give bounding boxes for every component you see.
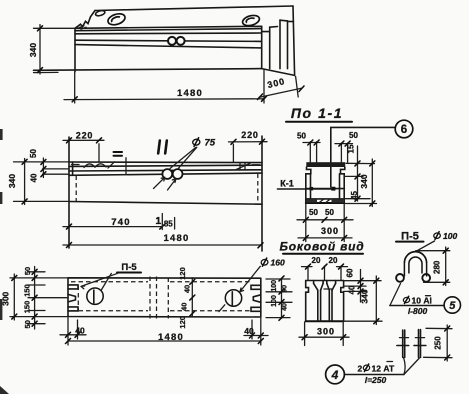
- svg-text:40: 40: [183, 285, 192, 293]
- svg-text:Боковой вид: Боковой вид: [280, 240, 365, 254]
- front face ledge line 4: [75, 45, 262, 48]
- left keys hidden dashed: [77, 286, 79, 312]
- lower cross ticks: [397, 345, 426, 347]
- right outer edge: [293, 6, 295, 75]
- svg-text:300: 300: [321, 226, 339, 236]
- circle 5: [444, 297, 460, 313]
- body bottom: [306, 202, 344, 204]
- front face bottom edge: [34, 69, 262, 71]
- svg-text:120: 120: [178, 316, 187, 329]
- bottom right dim 40: [244, 335, 268, 337]
- svg-text:40: 40: [180, 303, 189, 311]
- label diameter 75: [192, 138, 200, 147]
- svg-text:40: 40: [282, 303, 289, 311]
- svg-text:50: 50: [29, 149, 38, 158]
- svg-text:1480: 1480: [158, 332, 184, 343]
- bottom left dim 40: [68, 317, 78, 345]
- loop foot right: [422, 274, 430, 282]
- left total dim 300: [13, 274, 15, 320]
- loop foot left: [396, 274, 404, 282]
- outline: [68, 278, 261, 317]
- left side neck notch and body edge: [306, 167, 311, 203]
- bottom edge of right side face: [262, 69, 295, 76]
- svg-text:340: 340: [359, 174, 369, 188]
- svg-text:90: 90: [282, 285, 289, 293]
- upper cross ticks: [400, 337, 425, 339]
- svg-text:60: 60: [346, 268, 355, 277]
- dowel circles pair on ledge: [168, 37, 176, 45]
- beam left edge: [68, 137, 70, 248]
- svg-text:250: 250: [434, 336, 443, 350]
- right ext lines: [344, 280, 381, 282]
- dim 250: [424, 328, 453, 357]
- svg-text:40: 40: [244, 326, 254, 336]
- dim 1480 bottom: [63, 244, 262, 246]
- connector dots: [310, 187, 314, 191]
- ledge line 4 / body top: [69, 173, 262, 175]
- front elevation view: [7, 130, 335, 251]
- small horizontal in channel: [324, 288, 332, 290]
- arrows to holes: [154, 177, 165, 188]
- dim 280: [416, 251, 450, 283]
- svg-text:5: 5: [449, 300, 456, 312]
- lifting hole oval right: [241, 14, 260, 28]
- svg-text:40: 40: [75, 326, 85, 336]
- svg-text:50: 50: [349, 131, 358, 140]
- block outline with keyway notches: [306, 280, 344, 282]
- loop arch inner: [409, 257, 422, 263]
- label diameter 100: [433, 232, 441, 240]
- svg-text:40: 40: [30, 173, 39, 182]
- level mark =: [114, 152, 123, 156]
- vertical tick right of hatch: [125, 158, 127, 174]
- left bearing zone hatch: [72, 164, 80, 166]
- right bearing zone hatch: [236, 163, 250, 169]
- svg-text:l=250: l=250: [365, 375, 387, 385]
- loop legs: [404, 263, 426, 277]
- right side neck notch and body edge: [341, 167, 345, 203]
- svg-text:100: 100: [271, 295, 278, 307]
- right hole circle with mark 1: [225, 290, 241, 306]
- shelf line: [390, 305, 444, 307]
- svg-text:По 1-1: По 1-1: [291, 105, 343, 121]
- svg-text:340: 340: [7, 174, 17, 188]
- beam top edge: [69, 161, 262, 164]
- svg-text:П-5: П-5: [121, 262, 137, 273]
- svg-text:150: 150: [23, 301, 32, 314]
- svg-text:50: 50: [325, 208, 334, 217]
- svg-text:l-800: l-800: [408, 306, 428, 316]
- right end step verticals: [261, 26, 263, 68]
- loop arch outer: [404, 252, 426, 263]
- dim line 340 right: [371, 159, 373, 207]
- scan smudges on left edge: [0, 129, 3, 140]
- hidden dashed edges horizontal: [71, 281, 250, 283]
- dim 60 40: [360, 270, 362, 303]
- svg-text:20: 20: [312, 256, 321, 265]
- leader to shelf: [390, 284, 401, 306]
- detail pos 4 dowel bars: [326, 325, 452, 385]
- circle 6: [395, 120, 413, 138]
- left bar: [403, 330, 405, 357]
- svg-text:50: 50: [23, 320, 32, 328]
- left end hidden dashed line: [75, 176, 77, 202]
- svg-text:220: 220: [241, 130, 258, 140]
- bottom dim 50 50: [306, 203, 344, 242]
- dim 300 diagonal right of iso: [296, 77, 299, 98]
- svg-text:6: 6: [401, 124, 407, 136]
- svg-text:К-1: К-1: [280, 179, 294, 189]
- svg-text:160: 160: [271, 258, 285, 268]
- dim 220 top right: [232, 144, 234, 162]
- right dim chain 100 100: [266, 279, 292, 318]
- leader to label d160: [240, 266, 260, 291]
- svg-text:340: 340: [360, 289, 370, 303]
- svg-text:15: 15: [347, 144, 356, 153]
- shelf to circle 4: [345, 374, 404, 376]
- inner wall lines: [311, 174, 340, 199]
- svg-text:40: 40: [348, 285, 357, 294]
- left end inner vertical: [72, 162, 74, 175]
- inner horizontal at bottom strip: [306, 198, 344, 200]
- right end dovetail notch: [253, 295, 260, 303]
- dim 740 bottom: [63, 226, 162, 228]
- svg-text:1480: 1480: [164, 233, 190, 244]
- svg-text:340: 340: [28, 43, 38, 57]
- svg-text:4: 4: [331, 368, 339, 382]
- callout line to circle 6: [331, 127, 396, 187]
- front face ledge line 3: [75, 40, 262, 41]
- right side ext lines: [346, 162, 375, 164]
- dim 340: [344, 320, 382, 322]
- svg-text:740: 740: [111, 217, 130, 228]
- circle 4: [326, 365, 345, 384]
- svg-text:1480: 1480: [177, 88, 203, 99]
- svg-text:50: 50: [297, 132, 306, 141]
- top face front edge: [75, 26, 262, 28]
- bottom dim 1480: [252, 317, 261, 345]
- right end keys: [251, 285, 261, 289]
- top dim 50 right: [341, 143, 347, 162]
- section line bars and 85: [162, 214, 174, 230]
- leaders to circle 4: [404, 358, 420, 375]
- text o10 AI: [403, 296, 410, 303]
- top face back edge: [95, 6, 293, 11]
- isometric view of beam: [28, 6, 304, 103]
- front face left edge: [74, 28, 76, 72]
- dim 220 top left: [98, 144, 100, 162]
- svg-text:75: 75: [205, 137, 216, 148]
- channel walls: [318, 290, 332, 321]
- svg-text:220: 220: [76, 131, 93, 141]
- detail P-5 lifting loop: [390, 231, 461, 317]
- beam right edge: [261, 136, 263, 251]
- left end dovetail notch: [68, 294, 76, 302]
- notch tick marks: [79, 26, 86, 29]
- svg-text:120: 120: [178, 267, 187, 280]
- section cut marks 1-1: [158, 141, 167, 154]
- ledge line 2: [69, 165, 262, 166]
- left hole circle with mark 1: [87, 288, 103, 304]
- ledge line 3: [69, 170, 262, 171]
- svg-text:100: 100: [443, 231, 457, 241]
- bottom strip hatch: [306, 199, 317, 203]
- channel funnels: [314, 283, 336, 290]
- label diameter 160: [261, 258, 269, 266]
- svg-text:20: 20: [329, 256, 338, 265]
- svg-text:280: 280: [433, 260, 442, 274]
- right bar: [419, 330, 421, 358]
- svg-text:150: 150: [23, 284, 32, 297]
- svg-text:12 АТ: 12 АТ: [372, 363, 396, 373]
- dim 340 left of iso: [34, 27, 77, 29]
- plan view of beam: [1, 258, 293, 345]
- middle dim chain 120 40 40 120: [191, 278, 193, 317]
- channel stubs at top: [314, 281, 336, 284]
- leader lines to holes: [170, 147, 197, 168]
- lifting hole oval big left: [107, 12, 127, 27]
- svg-text:300: 300: [317, 327, 335, 337]
- lifting hole oval small left: [95, 10, 105, 17]
- svg-text:100: 100: [271, 280, 278, 292]
- svg-text:10 АI: 10 АI: [412, 296, 432, 306]
- short lower ext line: [34, 71, 59, 73]
- dim 1480 under iso: [74, 72, 76, 103]
- svg-text:45: 45: [350, 191, 359, 200]
- dim line 15/45: [357, 146, 359, 201]
- svg-text:85: 85: [164, 220, 173, 229]
- bottom dim 300: [298, 237, 352, 239]
- leader from d100 to loop: [416, 241, 435, 252]
- svg-text:50: 50: [309, 208, 318, 217]
- left dims 50 40 340: [14, 161, 70, 163]
- left dim chain 50 150 150 50: [10, 272, 68, 324]
- svg-text:2: 2: [358, 363, 363, 373]
- front face ledge line 1: [75, 29, 262, 31]
- front face ledge line 2: [75, 32, 262, 35]
- K-1 level line: [306, 188, 344, 190]
- section Po 1-1: [286, 105, 413, 242]
- svg-text:50: 50: [23, 267, 32, 275]
- side view Bokovoi vid: [280, 240, 382, 346]
- hidden dashed verticals center: [150, 277, 168, 321]
- right end hidden dashed line: [257, 174, 259, 204]
- left end keys: [68, 285, 78, 289]
- top face left edge with notch: [75, 11, 95, 29]
- svg-text:1: 1: [155, 215, 161, 227]
- cap filled top flange: [306, 162, 345, 167]
- dim 300 bottom: [305, 322, 344, 346]
- beam bottom edge: [69, 202, 262, 205]
- top dim 50 left: [310, 142, 316, 162]
- hole circles o75: [162, 169, 172, 179]
